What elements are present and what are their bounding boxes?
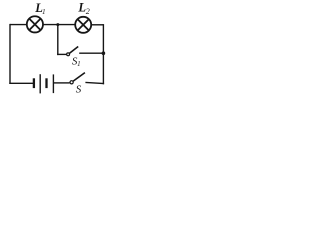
svg-text:2: 2 <box>86 7 90 16</box>
svg-text:S: S <box>76 84 82 96</box>
svg-text:1: 1 <box>77 60 81 68</box>
svg-text:1: 1 <box>42 8 46 16</box>
